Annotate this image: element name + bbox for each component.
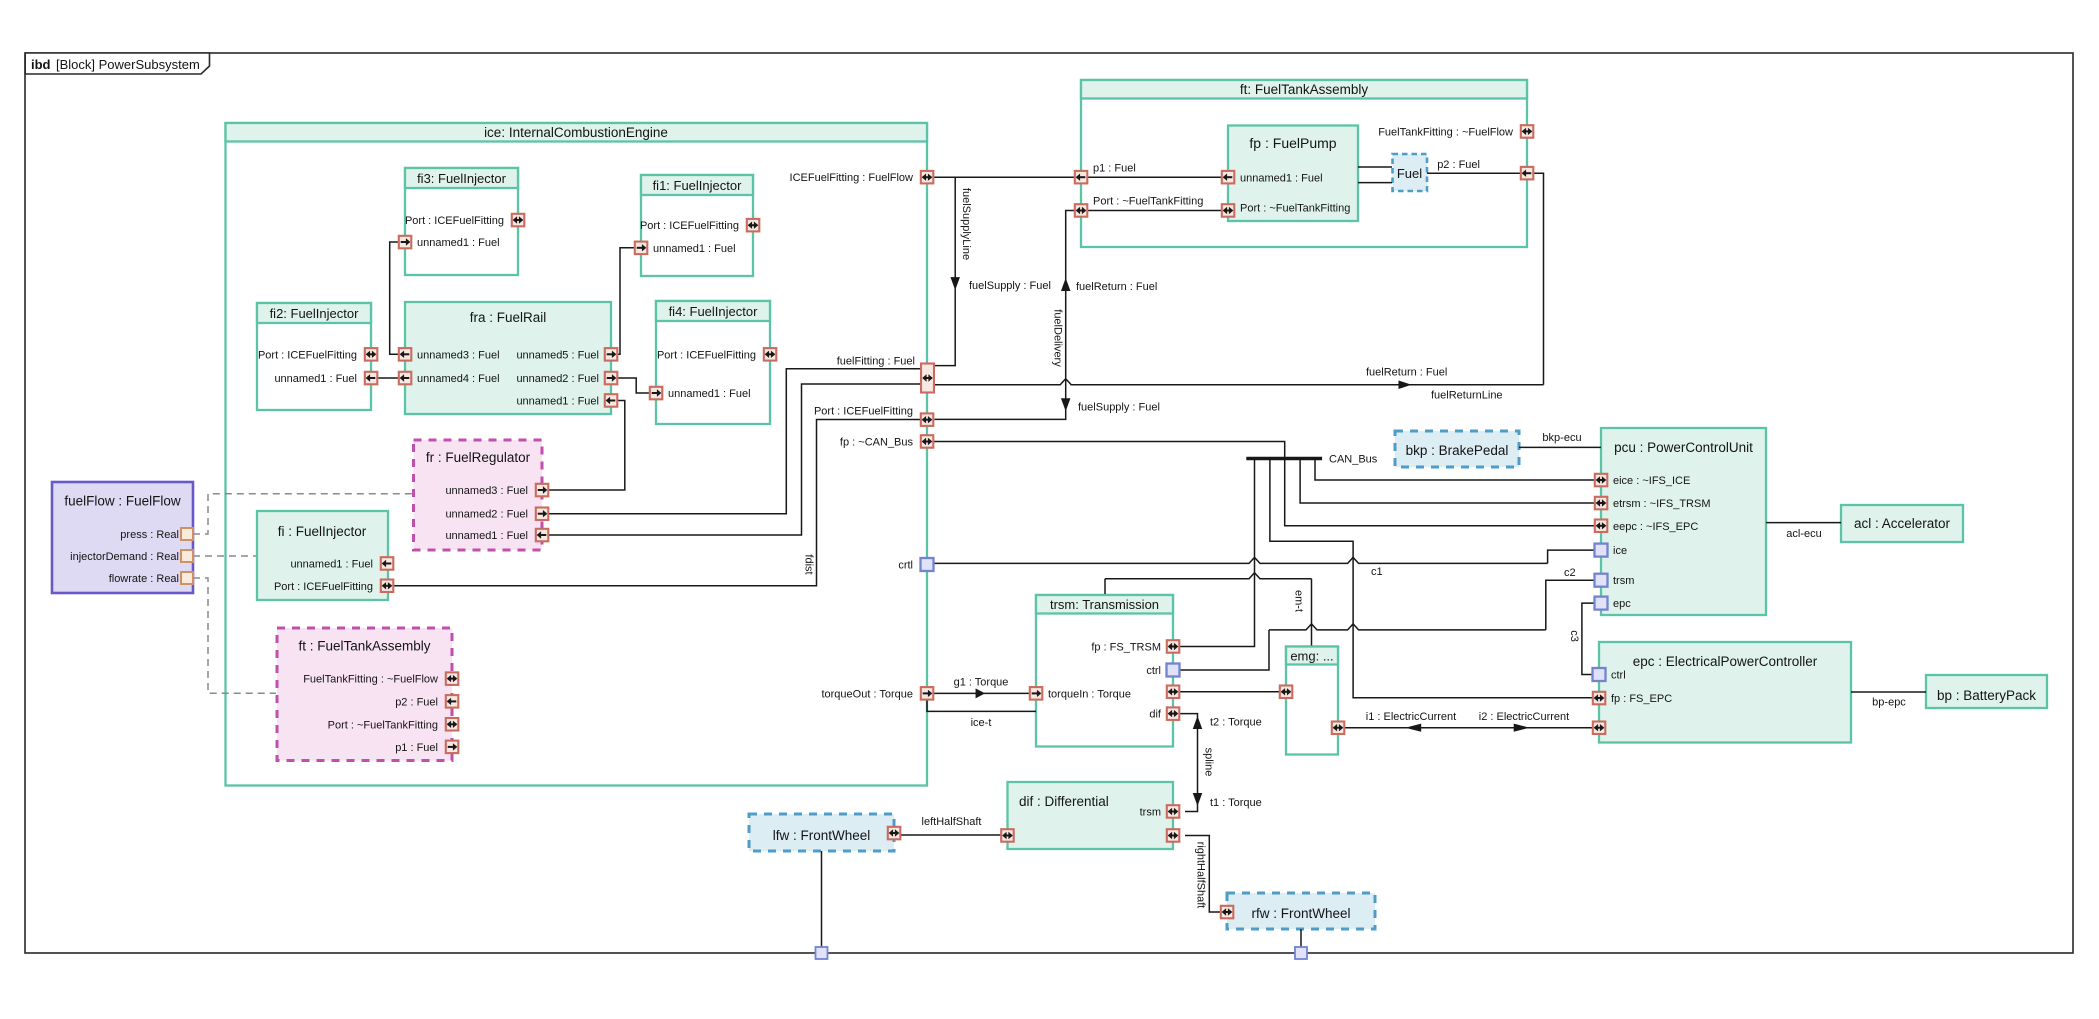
svg-text:unnamed1 : Fuel: unnamed1 : Fuel bbox=[653, 243, 736, 255]
svg-text:[Block] PowerSubsystem: [Block] PowerSubsystem bbox=[56, 57, 200, 72]
svg-text:fr : FuelRegulator: fr : FuelRegulator bbox=[426, 450, 531, 465]
svg-text:fi3: FuelInjector: fi3: FuelInjector bbox=[417, 171, 507, 186]
svg-text:acl-ecu: acl-ecu bbox=[1786, 528, 1821, 540]
svg-text:unnamed1 : Fuel: unnamed1 : Fuel bbox=[290, 559, 373, 571]
svg-text:unnamed1 : Fuel: unnamed1 : Fuel bbox=[445, 530, 528, 542]
svg-text:emg: ...: emg: ... bbox=[1290, 649, 1333, 664]
svg-text:CAN_Bus: CAN_Bus bbox=[1329, 454, 1378, 466]
svg-text:Port : ~FuelTankFitting: Port : ~FuelTankFitting bbox=[1093, 196, 1203, 208]
svg-text:unnamed3 : Fuel: unnamed3 : Fuel bbox=[445, 485, 528, 497]
svg-text:fuelDelivery: fuelDelivery bbox=[1052, 309, 1064, 367]
svg-text:unnamed4 : Fuel: unnamed4 : Fuel bbox=[417, 373, 500, 385]
svg-text:bkp-ecu: bkp-ecu bbox=[1542, 432, 1581, 444]
svg-text:flowrate : Real: flowrate : Real bbox=[109, 573, 179, 585]
svg-text:fp : ~CAN_Bus: fp : ~CAN_Bus bbox=[840, 437, 914, 449]
svg-text:ft : FuelTankAssembly: ft : FuelTankAssembly bbox=[298, 639, 430, 654]
svg-text:ice: ice bbox=[1613, 545, 1627, 557]
svg-text:g1 : Torque: g1 : Torque bbox=[954, 676, 1009, 688]
svg-text:fi1: FuelInjector: fi1: FuelInjector bbox=[653, 178, 743, 193]
svg-text:spline: spline bbox=[1203, 748, 1215, 777]
svg-text:fuelSupply : Fuel: fuelSupply : Fuel bbox=[1078, 402, 1160, 414]
svg-text:FuelTankFitting : ~FuelFlow: FuelTankFitting : ~FuelFlow bbox=[1378, 126, 1513, 138]
svg-text:trsm: trsm bbox=[1140, 807, 1161, 819]
svg-text:ibd: ibd bbox=[31, 57, 51, 72]
svg-text:c3: c3 bbox=[1568, 630, 1580, 642]
svg-text:trsm: Transmission: trsm: Transmission bbox=[1050, 597, 1159, 612]
svg-text:unnamed1 : Fuel: unnamed1 : Fuel bbox=[516, 396, 599, 408]
svg-text:ctrl: ctrl bbox=[1611, 670, 1626, 682]
svg-text:ice: InternalCombustionEngine: ice: InternalCombustionEngine bbox=[484, 125, 668, 140]
svg-text:c1: c1 bbox=[1371, 566, 1383, 578]
svg-text:unnamed1 : Fuel: unnamed1 : Fuel bbox=[417, 237, 500, 249]
svg-text:i2 : ElectricCurrent: i2 : ElectricCurrent bbox=[1479, 711, 1569, 723]
svg-text:fuelSupplyLine: fuelSupplyLine bbox=[960, 188, 972, 260]
svg-text:p2 : Fuel: p2 : Fuel bbox=[1437, 159, 1480, 171]
svg-text:fuelReturnLine: fuelReturnLine bbox=[1431, 390, 1503, 402]
svg-text:dif : Differential: dif : Differential bbox=[1019, 794, 1109, 809]
svg-text:epc : ElectricalPowerControlle: epc : ElectricalPowerController bbox=[1633, 654, 1818, 669]
svg-text:Port : ICEFuelFitting: Port : ICEFuelFitting bbox=[274, 581, 373, 593]
svg-text:fuelReturn : Fuel: fuelReturn : Fuel bbox=[1076, 281, 1157, 293]
svg-text:fp : FS_EPC: fp : FS_EPC bbox=[1611, 693, 1672, 705]
svg-text:etrsm : ~IFS_TRSM: etrsm : ~IFS_TRSM bbox=[1613, 498, 1711, 510]
svg-text:t2 : Torque: t2 : Torque bbox=[1210, 717, 1262, 729]
svg-text:ft: FuelTankAssembly: ft: FuelTankAssembly bbox=[1240, 82, 1369, 97]
svg-text:Port : ICEFuelFitting: Port : ICEFuelFitting bbox=[640, 220, 739, 232]
svg-text:unnamed2 : Fuel: unnamed2 : Fuel bbox=[516, 373, 599, 385]
svg-text:ctrl: ctrl bbox=[1146, 665, 1161, 677]
svg-text:FuelTankFitting : ~FuelFlow: FuelTankFitting : ~FuelFlow bbox=[303, 674, 438, 686]
svg-text:fuelFitting : Fuel: fuelFitting : Fuel bbox=[837, 356, 915, 368]
svg-text:t1 : Torque: t1 : Torque bbox=[1210, 797, 1262, 809]
svg-text:Port : ~FuelTankFitting: Port : ~FuelTankFitting bbox=[328, 719, 438, 731]
svg-text:press : Real: press : Real bbox=[120, 529, 179, 541]
svg-text:injectorDemand : Real: injectorDemand : Real bbox=[70, 551, 179, 563]
svg-text:Fuel: Fuel bbox=[1397, 166, 1422, 181]
svg-text:bp : BatteryPack: bp : BatteryPack bbox=[1937, 688, 2036, 703]
svg-text:dif: dif bbox=[1149, 709, 1162, 721]
svg-text:fdist: fdist bbox=[803, 554, 815, 574]
svg-text:unnamed1 : Fuel: unnamed1 : Fuel bbox=[1240, 173, 1323, 185]
svg-text:trsm: trsm bbox=[1613, 575, 1634, 587]
svg-text:rightHalfShaft: rightHalfShaft bbox=[1195, 842, 1207, 909]
svg-text:unnamed5 : Fuel: unnamed5 : Fuel bbox=[516, 349, 599, 361]
svg-text:unnamed1 : Fuel: unnamed1 : Fuel bbox=[668, 388, 751, 400]
svg-text:crtl: crtl bbox=[898, 560, 913, 572]
svg-text:em-t: em-t bbox=[1293, 590, 1305, 612]
svg-text:acl : Accelerator: acl : Accelerator bbox=[1854, 516, 1951, 531]
svg-text:eepc : ~IFS_EPC: eepc : ~IFS_EPC bbox=[1613, 521, 1698, 533]
svg-text:fuelFlow : FuelFlow: fuelFlow : FuelFlow bbox=[64, 494, 181, 509]
svg-text:fp : FS_TRSM: fp : FS_TRSM bbox=[1091, 642, 1161, 654]
svg-text:fuelReturn : Fuel: fuelReturn : Fuel bbox=[1366, 367, 1447, 379]
svg-text:fuelSupply : Fuel: fuelSupply : Fuel bbox=[969, 280, 1051, 292]
svg-text:Port : ICEFuelFitting: Port : ICEFuelFitting bbox=[657, 349, 756, 361]
svg-text:pcu : PowerControlUnit: pcu : PowerControlUnit bbox=[1614, 440, 1753, 455]
svg-text:fi2: FuelInjector: fi2: FuelInjector bbox=[270, 306, 360, 321]
svg-text:fi : FuelInjector: fi : FuelInjector bbox=[278, 524, 367, 539]
svg-text:fi4: FuelInjector: fi4: FuelInjector bbox=[669, 304, 759, 319]
svg-text:bp-epc: bp-epc bbox=[1872, 697, 1906, 709]
svg-text:bkp : BrakePedal: bkp : BrakePedal bbox=[1406, 443, 1509, 458]
svg-text:eice : ~IFS_ICE: eice : ~IFS_ICE bbox=[1613, 475, 1690, 487]
svg-text:p1 : Fuel: p1 : Fuel bbox=[1093, 163, 1136, 175]
svg-text:c2: c2 bbox=[1564, 567, 1576, 579]
svg-text:p2 : Fuel: p2 : Fuel bbox=[395, 696, 438, 708]
svg-text:rfw : FrontWheel: rfw : FrontWheel bbox=[1251, 906, 1350, 921]
svg-text:ice-t: ice-t bbox=[971, 717, 992, 729]
svg-text:i1 : ElectricCurrent: i1 : ElectricCurrent bbox=[1366, 711, 1456, 723]
svg-text:ICEFuelFitting : FuelFlow: ICEFuelFitting : FuelFlow bbox=[790, 172, 914, 184]
svg-text:p1 : Fuel: p1 : Fuel bbox=[395, 742, 438, 754]
svg-text:epc: epc bbox=[1613, 598, 1631, 610]
svg-text:leftHalfShaft: leftHalfShaft bbox=[922, 816, 982, 828]
svg-text:fra : FuelRail: fra : FuelRail bbox=[470, 310, 547, 325]
svg-text:fp : FuelPump: fp : FuelPump bbox=[1249, 135, 1336, 151]
svg-text:torqueOut : Torque: torqueOut : Torque bbox=[821, 688, 913, 700]
svg-text:unnamed1 : Fuel: unnamed1 : Fuel bbox=[274, 373, 357, 385]
svg-text:lfw : FrontWheel: lfw : FrontWheel bbox=[773, 828, 871, 843]
svg-text:Port : ICEFuelFitting: Port : ICEFuelFitting bbox=[258, 349, 357, 361]
svg-text:Port : ICEFuelFitting: Port : ICEFuelFitting bbox=[814, 406, 913, 418]
svg-text:Port : ~FuelTankFitting: Port : ~FuelTankFitting bbox=[1240, 203, 1350, 215]
svg-text:torqueIn : Torque: torqueIn : Torque bbox=[1048, 688, 1131, 700]
svg-text:unnamed2 : Fuel: unnamed2 : Fuel bbox=[445, 509, 528, 521]
svg-text:Port : ICEFuelFitting: Port : ICEFuelFitting bbox=[405, 215, 504, 227]
svg-text:unnamed3 : Fuel: unnamed3 : Fuel bbox=[417, 349, 500, 361]
